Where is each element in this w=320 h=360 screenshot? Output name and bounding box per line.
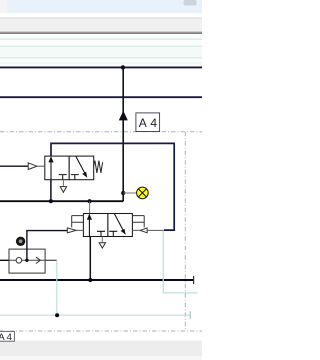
U2 flow path up arrow [88, 215, 90, 237]
U1 pilot triangle [28, 163, 37, 170]
U2 blocked port T right box [109, 231, 117, 236]
menu band gray [0, 19, 202, 32]
teal grid line 4 [0, 62, 202, 63]
U2 blocked port T left box [97, 231, 105, 236]
indicator lamp (yellow) [137, 187, 149, 199]
svg-text:A: A [139, 116, 147, 130]
bottom gray band [0, 341, 202, 357]
svg-text:A 4: A 4 [0, 332, 12, 343]
flow direction arrow on wire [119, 111, 128, 121]
window control smudge top right [184, 0, 197, 6]
menu band top edge [0, 17, 202, 18]
U1 blocked port T right box [71, 175, 79, 180]
pale green panel [0, 35, 202, 68]
U2 exhaust path diagonal arrow [114, 214, 124, 233]
bus line 2 (supply rail) [0, 96, 202, 98]
U1 exhaust path diagonal arrow [76, 156, 86, 175]
valve U2 right box [108, 214, 132, 237]
stub lower valve top port [89, 201, 91, 213]
node junction lamp tap [121, 191, 125, 195]
node junction (90.3,280) [88, 278, 92, 282]
wire upper valve bottom port down [50, 180, 52, 202]
wire vertical from bus1 down to line at y=201 [122, 67, 124, 201]
U2 left pilot bracket [72, 216, 84, 228]
frame border dash-dot top [0, 131, 202, 133]
teal bus line y=315 [0, 314, 190, 316]
U2 right pilot lead to node [147, 229, 164, 231]
wire from component top to left pilot of lower valve [27, 231, 67, 261]
U1 exhaust triangle [60, 187, 66, 193]
teal grid line 2 [0, 46, 202, 47]
component right port lead [45, 259, 57, 261]
teal wire down from component [56, 260, 58, 315]
U2 right pilot triangle [140, 228, 147, 233]
teal grid line 3 [0, 57, 202, 58]
U2 right pilot bracket [132, 216, 144, 228]
U2 right pilot stub [132, 229, 140, 231]
top toolbar band light blue [7, 0, 202, 13]
U2 left pilot triangle [67, 228, 76, 233]
adjust knob [16, 237, 25, 246]
navy wire from upper valve outlet to right pilot of lower valve [51, 143, 174, 230]
U2 exhaust stub [101, 237, 103, 243]
component body [9, 249, 45, 273]
supply line terminator [193, 276, 195, 284]
separator line [0, 30, 202, 33]
bottom reference label box A 4 [0, 331, 14, 343]
U1 blocked port T left box [59, 175, 67, 180]
valve U1 right box [69, 156, 94, 180]
valve U2 left box [83, 214, 108, 237]
node junction on teal bus [55, 313, 59, 317]
reference label box A 4 [136, 113, 160, 132]
U1 pilot stub [37, 165, 45, 167]
check ball circle [16, 258, 22, 264]
frame border dash-dot bottom [0, 330, 202, 332]
teal grid line 1 [0, 39, 202, 40]
valve U1 left box [45, 156, 69, 180]
U1 pilot line from left edge [0, 165, 28, 167]
wire lower valve bottom port to supply line [89, 237, 91, 281]
internal flow line [9, 259, 45, 261]
stub to indicator lamp [123, 192, 137, 194]
node junction on bus 1 [121, 65, 125, 69]
teal bus terminator [189, 311, 191, 319]
U1 return spring [93, 161, 102, 173]
U1 exhaust stub [62, 180, 64, 187]
supply line y=280 [0, 279, 194, 281]
teal wire from right pilot node down [163, 231, 197, 293]
frame border dash-dot right [184, 132, 186, 331]
check seat chevron [36, 257, 40, 263]
bus line 1 (supply rail) [0, 66, 202, 68]
U2 left pilot stub [76, 229, 83, 231]
node junction (50.9,201.2) [49, 199, 53, 203]
wire into component from left [0, 259, 9, 261]
U1 flow path up arrow [50, 157, 52, 180]
U2 exhaust triangle [99, 243, 105, 248]
teal grid band tint [0, 47, 202, 57]
node junction (89.6,201.2) [88, 199, 92, 203]
internal node dot [25, 259, 28, 262]
svg-text:4: 4 [150, 116, 157, 130]
wire horizontal y=201 [0, 200, 123, 202]
